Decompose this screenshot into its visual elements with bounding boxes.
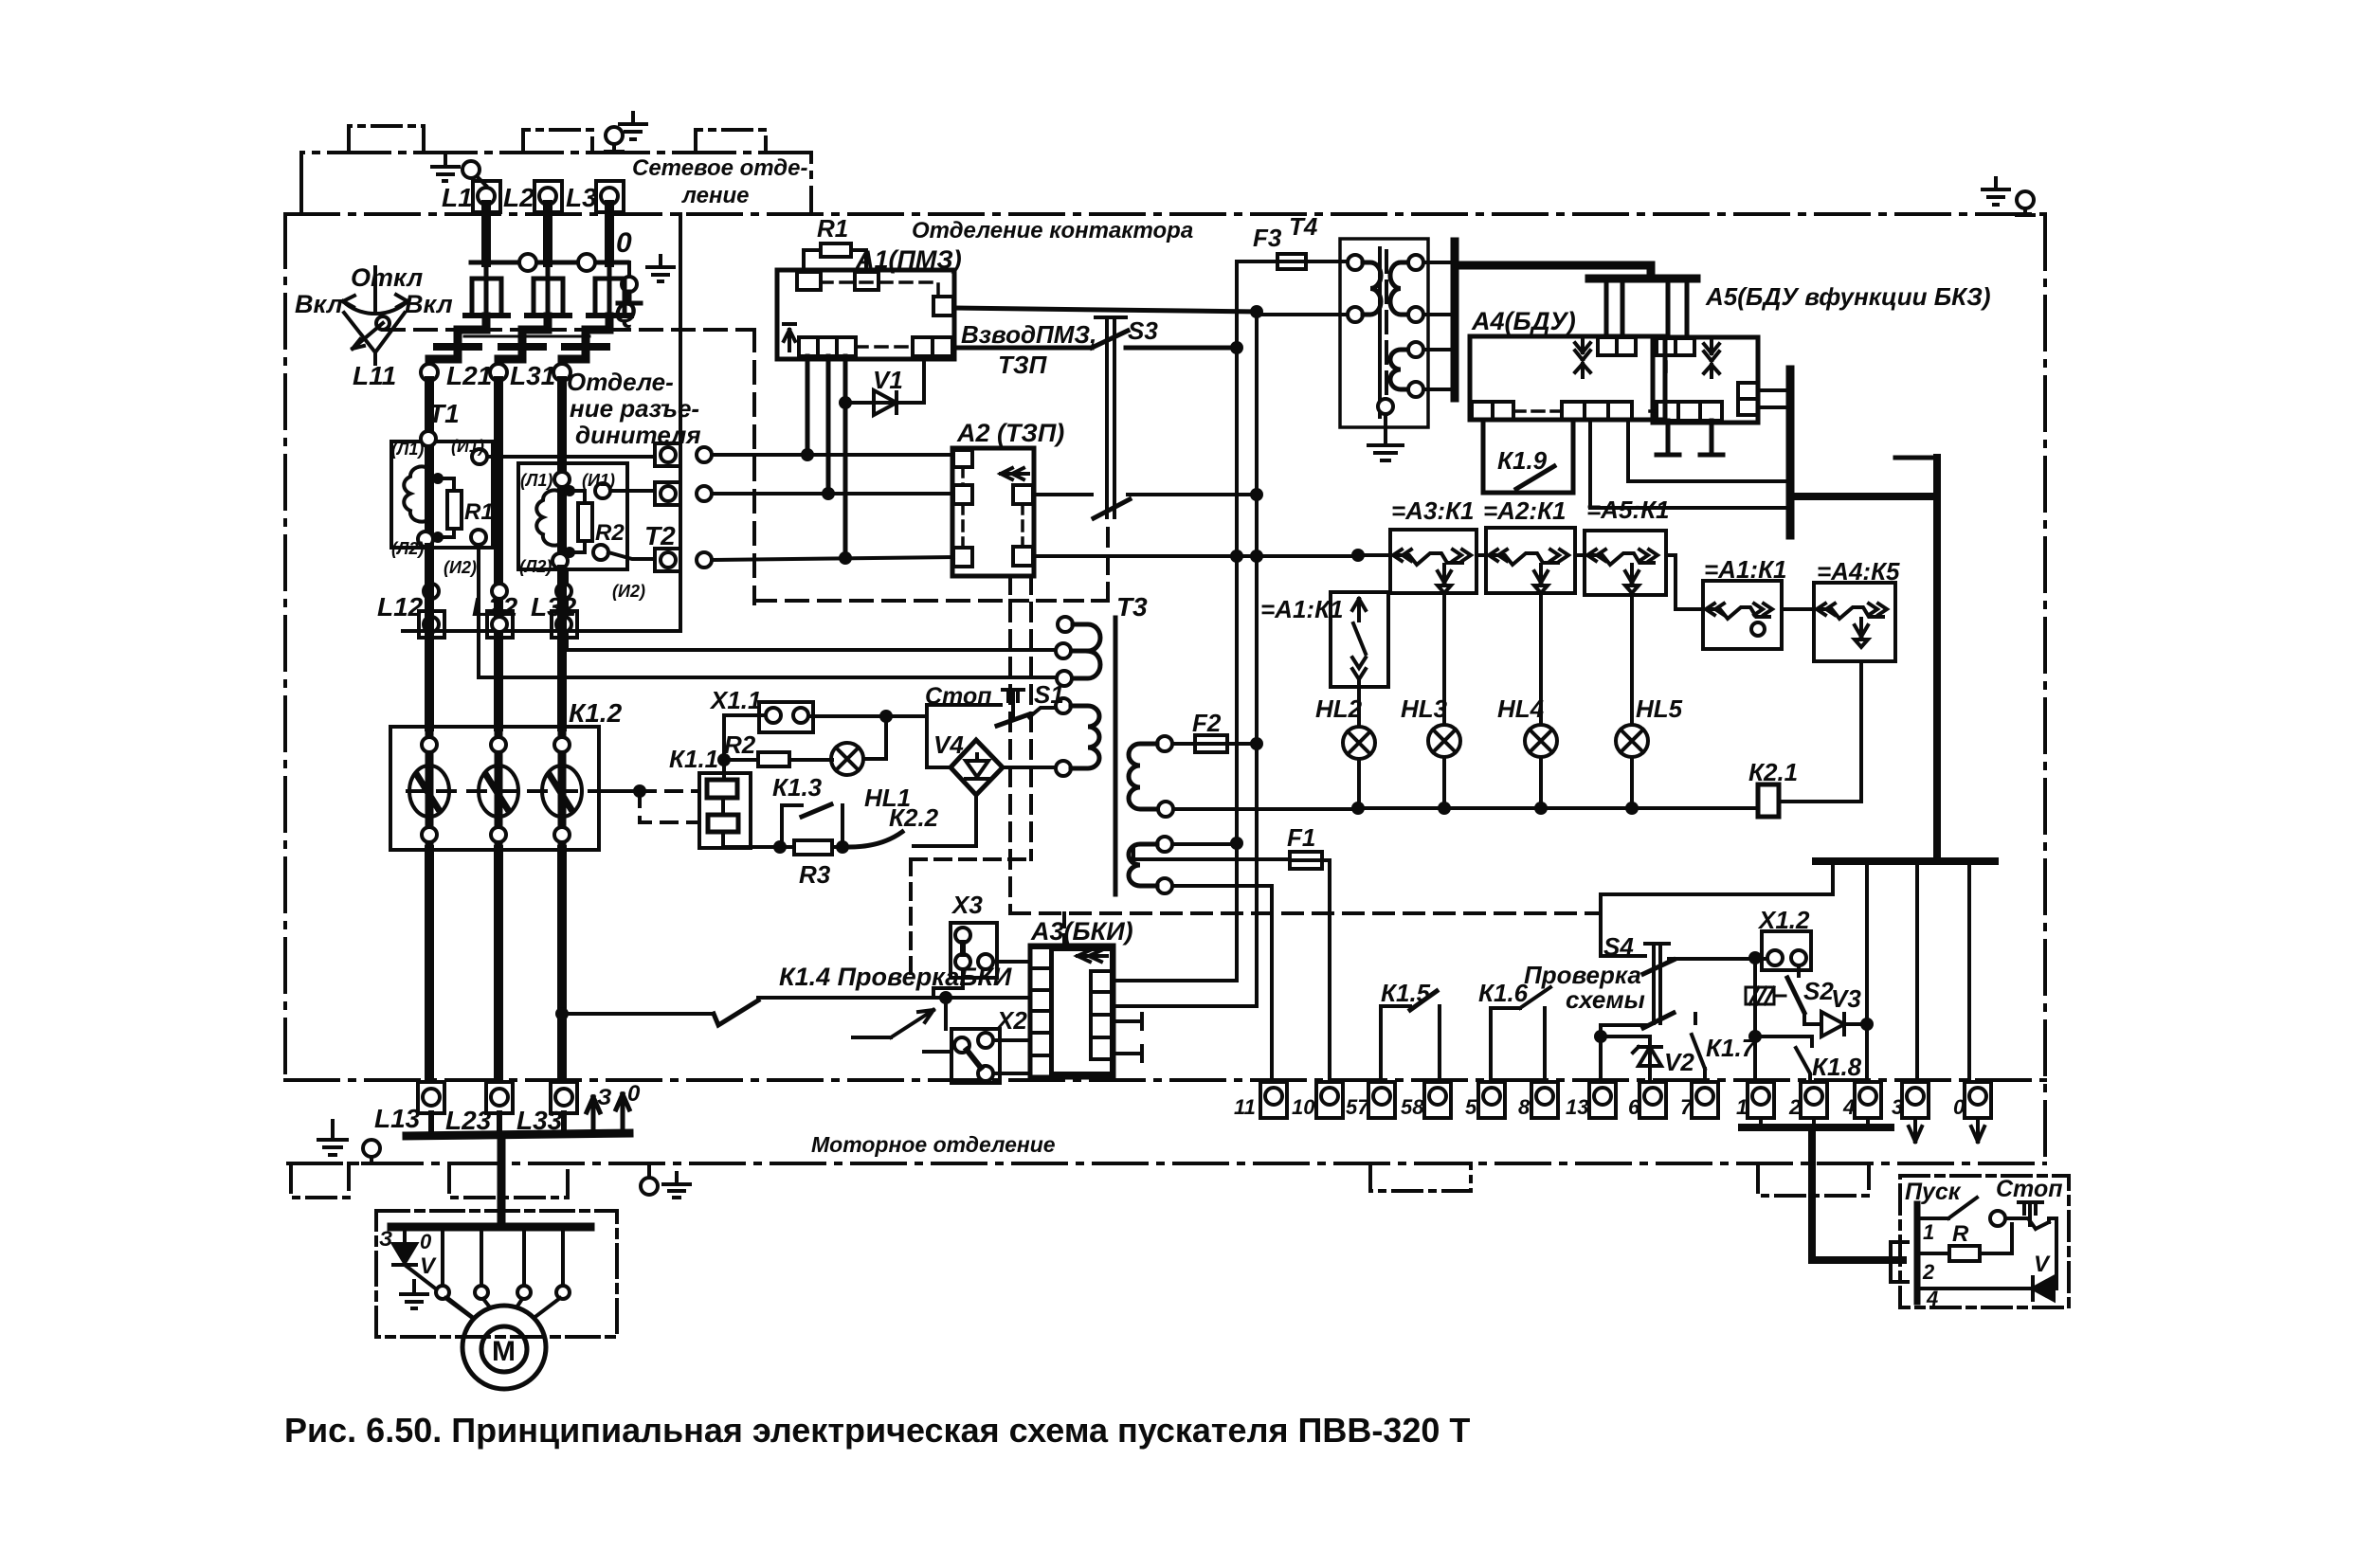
node L31 — [553, 364, 571, 381]
lamp HL5 — [1616, 725, 1648, 757]
A1 top terminal 2 — [855, 272, 879, 290]
Стоп plunger — [2019, 1202, 2042, 1225]
long wire to T3 upper tap — [567, 648, 1056, 652]
drop terminal 3 — [1915, 861, 1919, 1082]
svg-text:0: 0 — [627, 1081, 641, 1107]
K2.1 right wire — [1779, 800, 1861, 803]
K1.2 pole 1 — [409, 737, 449, 842]
T3 winding3 coil — [1129, 744, 1157, 809]
T4 secondary wires to bus — [1423, 262, 1452, 389]
K1.4 blade — [714, 1000, 758, 1025]
ground symbol lower-left — [318, 1121, 347, 1155]
svg-text:Вкл: Вкл — [295, 290, 343, 318]
phase2 wire L21 down — [494, 381, 503, 727]
A4 bottom terminals right — [1562, 402, 1632, 420]
svg-text:А4(БДУ): А4(БДУ) — [1471, 307, 1576, 335]
phase L2 drop from terminal — [543, 205, 552, 262]
junction dot X1.2 left — [1748, 951, 1762, 964]
svg-text:0: 0 — [616, 227, 632, 259]
lower border mid tab — [1370, 1163, 1471, 1191]
thick feeder from earth bus down to remote box — [1812, 1127, 1903, 1260]
junction dot R2 — [717, 753, 731, 766]
resistor R1 above A1 — [821, 243, 851, 257]
knife switch phase3 — [589, 262, 631, 315]
V4 internal diode glyph — [966, 754, 988, 779]
X1.2 circles — [1767, 950, 1806, 965]
phase1 wire through L12 — [425, 548, 434, 727]
junction dot R3 right — [836, 840, 849, 854]
knife switch phase1 — [465, 262, 508, 315]
wire circle to Стоп plunger — [2005, 1218, 2036, 1229]
contact box =А2:К1 — [1486, 528, 1575, 593]
motor bus bar — [391, 1223, 590, 1232]
svg-text:Т4: Т4 — [1289, 212, 1318, 241]
main enclosure left border — [283, 214, 287, 1079]
motor ground — [401, 1281, 427, 1308]
svg-text:К1.8: К1.8 — [1812, 1053, 1862, 1081]
phase2 below K1.2 — [494, 850, 503, 1082]
terminal L23 — [486, 1082, 513, 1113]
svg-text:X3: X3 — [951, 891, 983, 919]
bottom border (terminal strip line) — [285, 1078, 2045, 1082]
svg-text:5: 5 — [1465, 1095, 1477, 1119]
compartment bottom solid edge — [403, 629, 680, 633]
wire dot to V2 — [1601, 1035, 1650, 1038]
junction dot 1326/587 — [1250, 550, 1263, 563]
diode V3 — [1821, 1012, 1867, 1036]
T4 tap to ground — [1368, 414, 1403, 460]
wire K1.4 to A3 — [758, 996, 1030, 1000]
svg-text:S1: S1 — [1034, 680, 1064, 709]
motor feeder bus bar — [407, 1133, 629, 1136]
S4 bottom exit — [1601, 1025, 1646, 1036]
A5 top thick bar — [1589, 275, 1696, 283]
R1 right lead — [851, 250, 866, 272]
contact K1.6 — [1491, 987, 1550, 1082]
junction dot HL4 bus — [1534, 802, 1548, 815]
wire S3 to F3 vertical — [1126, 346, 1237, 351]
ground pin on lower border middle — [641, 1163, 658, 1195]
X3 circles and link — [955, 928, 993, 969]
T2 junction dots — [564, 485, 575, 496]
top tab 2 — [523, 130, 592, 153]
arrow below terminal 3 — [1909, 1118, 1922, 1142]
T4 primary coil — [1363, 262, 1381, 315]
transformer T2 box — [518, 463, 627, 569]
wire HL5 to bus — [1630, 757, 1634, 808]
dashed linkage through K1.2 poles — [408, 789, 599, 793]
fuse F3 — [1277, 254, 1306, 269]
dashed box around K2.2 area — [911, 859, 1031, 976]
S4 blade upper — [1643, 960, 1674, 974]
node open circle on bus 2 — [578, 254, 595, 271]
contact box =А3:К1 — [1390, 530, 1476, 593]
phase3 plug tick — [565, 343, 607, 351]
T4 secondary node 2 — [1408, 307, 1423, 322]
T1 coil — [404, 466, 429, 521]
wire X1.1 right to junction — [808, 714, 927, 718]
svg-text:S2: S2 — [1803, 977, 1834, 1005]
compartment divider vertical — [679, 214, 682, 631]
S2 blade — [1787, 978, 1804, 1013]
T1 R1 top wire — [438, 478, 454, 491]
T1 R1 bottom wire — [438, 529, 454, 537]
T2 R2 top wire — [570, 491, 585, 503]
dashed branch down to A3 — [1062, 913, 1066, 946]
wire terminal2 to A2 — [712, 492, 953, 496]
ground + pin left of L1 — [432, 155, 486, 186]
A3 right terminal column — [1091, 971, 1112, 1059]
dashed mech link to disconnector compartment — [383, 328, 754, 332]
svg-text:З: З — [379, 1227, 392, 1251]
S2 button hatch box — [1746, 987, 1785, 1004]
wire winding3 bottom to lamp bus — [1173, 807, 1358, 811]
ground circle Q — [622, 277, 637, 292]
terminal numbers — [1234, 1095, 1965, 1119]
svg-text:HL5: HL5 — [1636, 694, 1683, 723]
contact box =А1:К1 (vertical, left) — [1331, 592, 1388, 687]
svg-text:Отделение контактора: Отделение контактора — [912, 218, 1193, 243]
diode V1 — [874, 390, 897, 415]
wire bus right end to ground circle — [627, 262, 631, 279]
K1.1 link between contacts — [721, 798, 725, 815]
wire HL2 to bus — [1357, 759, 1361, 808]
solid link K1.2 to dot — [599, 789, 640, 793]
K1.1 bottom exit — [723, 832, 780, 847]
motor drop 5 diag — [536, 1298, 560, 1316]
R2 leads — [724, 758, 832, 762]
S4 plunger double line — [1645, 944, 1669, 1023]
Стоп contact to right rail — [2036, 1218, 2056, 1289]
T4 center tap node — [1378, 399, 1393, 414]
phase lines through K1.2 poles — [429, 727, 562, 850]
junction dot HL3 bus — [1438, 802, 1451, 815]
A1 bottom drop 2 — [826, 356, 831, 494]
block A3 box — [1030, 946, 1114, 1077]
svg-text:Моторное отделение: Моторное отделение — [811, 1132, 1056, 1157]
junction dot V3 out — [1860, 1018, 1874, 1031]
switch S3 plunger double line — [1096, 317, 1126, 517]
main enclosure right border — [2043, 216, 2047, 1160]
wire =А4:К5 down to K2.1 — [1859, 661, 1863, 802]
drop to V3/terminal 4 — [1865, 861, 1869, 1082]
connector X1.2 box — [1762, 931, 1811, 970]
S1 plunger — [1003, 690, 1023, 717]
wire riser to F3 — [1237, 260, 1277, 263]
K1.3 blade — [802, 804, 831, 817]
R1 left lead — [804, 250, 821, 272]
wire row exit down to second row — [1666, 555, 1703, 609]
junction dot drop2 — [822, 487, 835, 500]
junction dot linkage — [633, 784, 646, 798]
T3 winding2 bottom node — [1056, 761, 1071, 776]
lamp HL3 — [1428, 725, 1460, 757]
svg-text:(Л1): (Л1) — [520, 471, 552, 490]
bottom thick bar right — [1816, 857, 1995, 865]
svg-text:R3: R3 — [799, 860, 831, 889]
T3 winding4 bottom node — [1157, 878, 1172, 893]
svg-text:F2: F2 — [1192, 709, 1222, 737]
motor drop 2 circle — [436, 1286, 449, 1299]
K2.2 wire right to V4 bottom — [914, 844, 976, 848]
long wire to T3 lower tap — [479, 676, 1057, 679]
svg-text:F3: F3 — [1253, 224, 1282, 252]
wire box to HL2 — [1357, 687, 1361, 727]
svg-text:Пуск: Пуск — [1905, 1179, 1962, 1205]
svg-text:R1: R1 — [464, 499, 494, 525]
T4 core lines — [1378, 248, 1382, 417]
svg-text:L11: L11 — [353, 361, 396, 390]
wire winding4 tap to terminal 11 — [1172, 886, 1272, 1082]
wire A1 lower right (Взвод line) — [953, 346, 1092, 351]
svg-text:К1.4 ПроверкаБКИ: К1.4 ПроверкаБКИ — [779, 963, 1012, 991]
wire winding3 top to F2 — [1172, 742, 1195, 746]
junction dot 1305/587 — [1230, 550, 1243, 563]
A5 pillar 2 — [1668, 282, 1687, 337]
node L32 — [556, 584, 571, 599]
dashed corner to S3 link — [1010, 527, 1108, 601]
motor drop 4 circle — [517, 1286, 531, 1299]
T2 node Л1 — [554, 472, 570, 487]
K2.2 blade — [849, 832, 902, 847]
svg-text:L31: L31 — [510, 361, 555, 390]
svg-text:Вкл: Вкл — [405, 290, 453, 318]
svg-text:2: 2 — [1922, 1260, 1935, 1284]
wire T1 И1 to terminal 1 — [487, 455, 655, 459]
svg-text:R1: R1 — [817, 214, 848, 243]
node circle right of terminal 2 — [697, 486, 712, 501]
A2 linkage dashed verticals — [1010, 576, 1031, 913]
top tab 1 — [349, 126, 424, 153]
thick drop to motor box — [498, 1136, 506, 1227]
svg-text:К1.3: К1.3 — [772, 773, 823, 802]
svg-text:ТЗП: ТЗП — [998, 351, 1048, 379]
connector X2 box — [951, 1029, 1000, 1083]
A5 right terminals — [1738, 383, 1758, 415]
relay coil K2.1 — [1758, 784, 1779, 817]
svg-text:Рис. 6.50. Принципиальная: Рис. 6.50. Принципиальная электрическая … — [284, 1411, 1470, 1450]
connector brackets at box left — [1891, 1242, 1908, 1282]
phase3 wire through L32 — [557, 569, 567, 727]
svg-text:=А2:К1: =А2:К1 — [1483, 496, 1567, 525]
svg-text:=А1:К1: =А1:К1 — [1260, 595, 1344, 623]
lower border right tab — [1758, 1163, 1869, 1196]
svg-text:(И1): (И1) — [451, 437, 484, 456]
A1 bottom drop 1 — [806, 356, 810, 454]
node L12 — [424, 584, 439, 599]
svg-text:(Л2): (Л2) — [391, 539, 424, 558]
resistor R2 — [758, 752, 789, 766]
A5 top terminals — [1657, 338, 1694, 355]
T1 junction dots — [432, 473, 444, 484]
wire T1 И2 down to T3 feed — [477, 545, 480, 677]
motor drop 3 — [480, 1227, 483, 1286]
terminal L3 — [596, 181, 624, 212]
K1.9 blade — [1516, 466, 1554, 489]
svg-text:А5(БДУ вфункции БКЗ): А5(БДУ вфункции БКЗ) — [1705, 282, 1991, 311]
motor drop 2 diag — [445, 1298, 471, 1317]
K1.4 moving arm — [853, 1010, 933, 1037]
wire F1 to terminal 10 — [1322, 860, 1330, 1082]
T4 secondary coil lower — [1390, 350, 1408, 389]
compartment terminal 1 — [655, 443, 680, 466]
svg-text:(И2): (И2) — [612, 582, 645, 601]
svg-text:11: 11 — [1234, 1095, 1256, 1119]
T2 node И1 — [595, 483, 610, 498]
main enclosure top border — [285, 212, 2045, 216]
contact K1.7 — [1692, 1014, 1705, 1082]
X2 circles and blade — [954, 1033, 993, 1081]
S3 bottom contact blade — [1094, 499, 1130, 518]
wire terminal3 to A2 — [712, 557, 953, 560]
wire X3 to A3 — [993, 960, 1030, 964]
T2 primary pass-through — [557, 463, 567, 569]
svg-text:Стоп: Стоп — [1996, 1176, 2063, 1202]
A3 inner box — [1052, 949, 1112, 1073]
phase L1 drop from terminal — [481, 205, 491, 262]
A2 left terminals — [953, 450, 972, 567]
wire X1.1 node to S1 — [927, 703, 1001, 707]
contact box =А1:К1 row2 — [1703, 581, 1782, 649]
svg-text:13: 13 — [1566, 1095, 1588, 1119]
T1 resistor R1 — [447, 491, 462, 529]
contactor compartment dashed bottom — [754, 599, 1010, 603]
S1 contact blade — [997, 714, 1029, 726]
node circle right of terminal 1 — [697, 447, 712, 462]
svg-text:1: 1 — [1736, 1095, 1748, 1119]
thin link upper to right riser — [1895, 456, 1937, 460]
wire dot down to X2 — [944, 998, 948, 1029]
svg-text:схемы: схемы — [1566, 985, 1645, 1014]
svg-text:6: 6 — [1628, 1095, 1640, 1119]
dashed linkage dot to K1.1 — [640, 789, 699, 793]
wire X1.2 feed from S4 plunger — [1669, 957, 1767, 961]
wire T2 И1 to terminal 2 — [610, 489, 655, 493]
bridge V4 diamond — [951, 740, 1003, 795]
fuse F1 — [1290, 852, 1322, 869]
junction dot winding4/1305 — [1230, 837, 1243, 850]
svg-text:8: 8 — [1518, 1095, 1531, 1119]
right riser thick — [1933, 458, 1941, 859]
K1.1 outer box — [699, 773, 751, 848]
transformer T4 box — [1340, 239, 1428, 427]
K1.3 right leg — [841, 805, 844, 847]
earth bus under terminals 1-2-4 — [1742, 1124, 1891, 1131]
connector X1.1 box — [759, 702, 813, 732]
wire X3 bottom loop — [933, 969, 963, 997]
A4 internal dashed — [1513, 409, 1562, 413]
A4 arrow glyph — [1575, 337, 1590, 377]
arrow below terminal 0 — [1971, 1118, 1984, 1142]
junction dot F2 riser — [1250, 737, 1263, 750]
phase2 jog — [498, 316, 548, 365]
wires terminals to bus bar — [431, 1113, 564, 1134]
T4 output bus bar — [1451, 242, 1459, 398]
svg-text:ление: ление — [681, 183, 749, 208]
terminal L13 — [418, 1082, 444, 1113]
wire chain through contact row — [1365, 553, 1585, 557]
junction dot 1326/329 — [1250, 305, 1263, 318]
motor drop 5 — [561, 1227, 565, 1286]
phase1 below K1.2 — [425, 850, 434, 1082]
svg-text:К2.2: К2.2 — [889, 803, 939, 832]
svg-text:57: 57 — [1346, 1095, 1370, 1119]
T2 R2 bottom wire — [570, 541, 585, 552]
A5 pillar 1 — [1606, 282, 1622, 336]
T1 node И1 — [472, 449, 487, 464]
A4 drop wire 1 to bar — [1590, 420, 1787, 508]
wire A2 mid-right to S3 bottom — [1033, 493, 1092, 496]
block A5 box — [1653, 337, 1758, 423]
node L11 — [421, 364, 438, 381]
svg-text:3: 3 — [1892, 1095, 1903, 1119]
svg-text:А3(БКИ): А3(БКИ) — [1030, 917, 1133, 946]
Пуск switch — [1917, 1198, 1977, 1218]
compartment terminal 2 — [655, 482, 680, 505]
junction dot lamp bus left — [1351, 802, 1365, 815]
block A2 box — [952, 448, 1034, 576]
junction dot K1.8 branch — [1748, 1030, 1762, 1043]
K1.2 box — [390, 727, 599, 850]
junction dot R3 left — [773, 840, 787, 854]
knife switch phase2 — [527, 262, 570, 315]
K1.1 feed vertical — [722, 760, 726, 780]
terminal L33 — [551, 1082, 577, 1113]
selector arc with arrows — [343, 267, 408, 314]
lamp HL4 — [1525, 725, 1557, 757]
wire V4 branch vertical — [925, 705, 929, 767]
phase2 plug tick — [501, 343, 543, 351]
A5 internal dashed — [1650, 362, 1666, 411]
svg-text:L21: L21 — [446, 361, 492, 390]
earth arrow З — [587, 1097, 600, 1134]
A3 stub T2 — [1114, 1046, 1142, 1061]
phase3 below K1.2 — [557, 850, 567, 1082]
wire A3 right to vertical 1305 — [1112, 979, 1237, 982]
wire K1.4 from phase3 — [562, 1012, 714, 1016]
svg-text:К1.1: К1.1 — [669, 745, 718, 773]
left border lower tab — [291, 1163, 349, 1198]
terminal square L32 — [552, 611, 577, 638]
dashed linkage down-right to K1.1 lower — [640, 791, 699, 822]
wire HL1 to junction vertical — [863, 716, 886, 759]
T3 winding3 top node — [1157, 736, 1172, 751]
svg-text:Т2: Т2 — [644, 521, 676, 550]
T1 node Л2 — [418, 532, 433, 547]
S2 stem below right circle — [1797, 965, 1801, 976]
T4 secondary node 4 — [1408, 382, 1423, 397]
svg-text:V3: V3 — [1831, 984, 1861, 1013]
ground stem below Q circle — [618, 292, 641, 303]
T3 upper winding bottom node — [1057, 671, 1072, 686]
T4 wire primary bottom — [1257, 313, 1348, 316]
A1 dashed internal lower — [856, 345, 913, 349]
terminal L1 — [473, 181, 500, 212]
T4 primary node bottom — [1348, 307, 1363, 322]
svg-text:Т3: Т3 — [1116, 592, 1148, 622]
A3 stub T1 — [1114, 1014, 1142, 1029]
svg-text:7: 7 — [1680, 1095, 1694, 1119]
wire terminal1 to A2 — [712, 453, 953, 457]
contact box =А4:К5 — [1814, 583, 1895, 661]
R3 leads — [780, 845, 842, 849]
svg-text:А2 (ТЗП): А2 (ТЗП) — [956, 419, 1064, 447]
T1 node Л1 — [421, 431, 436, 446]
T3 winding4 top node — [1157, 837, 1172, 852]
ground symbol middle — [663, 1173, 690, 1198]
A5 ground 1 — [1657, 421, 1679, 455]
junction dot HL5 bus — [1625, 802, 1639, 815]
